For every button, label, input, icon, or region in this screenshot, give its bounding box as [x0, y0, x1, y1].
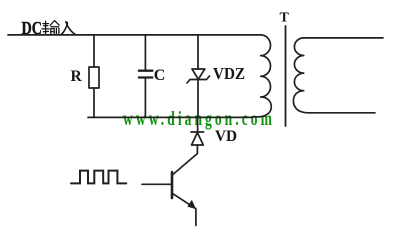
- wire VD to collector: [196, 145, 198, 154]
- transistor VT base bar: [171, 172, 174, 198]
- wire base lead: [142, 183, 171, 185]
- emitter arrowhead: [188, 201, 195, 208]
- wire VDZ to bus: [197, 80, 199, 118]
- label 输 (drawn): [42, 21, 59, 35]
- svg-text:R: R: [71, 68, 83, 85]
- resistor R: [89, 67, 99, 88]
- transformer T primary winding: [252, 35, 271, 117]
- svg-text:VDZ: VDZ: [213, 64, 245, 83]
- wire bottom bus: [88, 116, 252, 118]
- wire C column top: [144, 35, 146, 70]
- square wave pulse symbol: [71, 171, 126, 184]
- wire C column bottom: [144, 79, 146, 118]
- wire emitter down: [195, 209, 197, 226]
- capacitor C: [139, 71, 153, 78]
- wire bus to VD: [197, 117, 199, 132]
- wire VDZ column top: [197, 35, 199, 69]
- wire R column bottom: [93, 88, 95, 117]
- svg-text:VD: VD: [215, 128, 237, 145]
- svg-text:C: C: [154, 67, 166, 84]
- diode VD: [191, 132, 204, 145]
- transformer T secondary winding: [293, 38, 375, 113]
- transformer T secondary winding top lead: [304, 37, 383, 39]
- label 入 (drawn): [61, 22, 76, 35]
- svg-text:T: T: [280, 11, 290, 26]
- transistor VT collector: [172, 154, 197, 176]
- zener diode VDZ: [187, 69, 210, 83]
- transistor VT emitter: [172, 193, 194, 208]
- wire top bus: [8, 34, 261, 36]
- wire R column top: [93, 35, 95, 67]
- label DC输入: [22, 18, 43, 38]
- transformer core: [285, 26, 287, 126]
